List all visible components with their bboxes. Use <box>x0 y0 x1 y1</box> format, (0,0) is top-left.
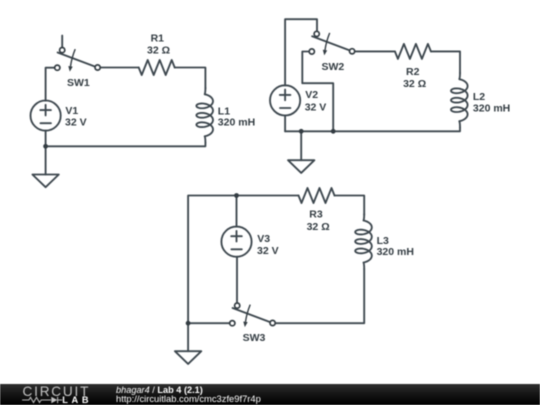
svg-text:V3: V3 <box>257 233 270 245</box>
svg-text:32 V: 32 V <box>65 116 87 128</box>
svg-text:320 mH: 320 mH <box>377 246 414 258</box>
svg-text:SW2: SW2 <box>322 61 345 73</box>
svg-text:32 Ω: 32 Ω <box>147 45 170 57</box>
svg-text:V2: V2 <box>305 89 318 101</box>
svg-text:V1: V1 <box>65 105 78 117</box>
svg-text:L3: L3 <box>377 235 389 247</box>
svg-text:32 V: 32 V <box>257 245 279 257</box>
svg-text:L2: L2 <box>473 91 485 103</box>
svg-text:32 V: 32 V <box>305 101 327 113</box>
svg-text:R1: R1 <box>151 33 165 45</box>
svg-text:L1: L1 <box>218 105 230 117</box>
svg-text:SW1: SW1 <box>67 77 90 89</box>
svg-text:320 mH: 320 mH <box>218 117 255 129</box>
svg-text:R3: R3 <box>309 209 323 221</box>
svg-text:32 Ω: 32 Ω <box>403 78 426 90</box>
svg-text:SW3: SW3 <box>243 332 266 344</box>
svg-text:320 mH: 320 mH <box>473 103 510 115</box>
svg-text:32 Ω: 32 Ω <box>307 221 330 233</box>
svg-text:LAB: LAB <box>62 395 92 405</box>
svg-text:http://circuitlab.com/cmc3zfe9: http://circuitlab.com/cmc3zfe9f7r4p <box>116 393 261 404</box>
svg-text:R2: R2 <box>406 66 420 78</box>
